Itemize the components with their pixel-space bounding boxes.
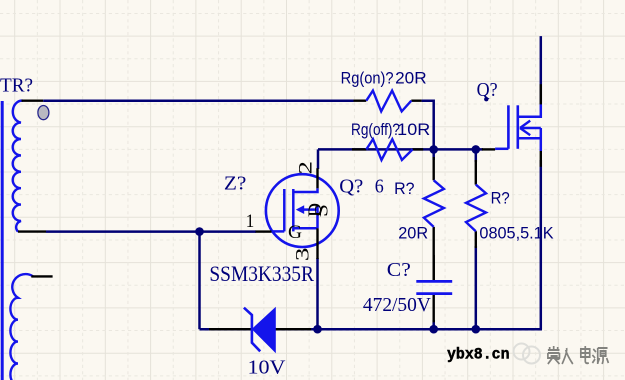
svg-text:0805,5.1K: 0805,5.1K — [479, 224, 554, 243]
resistor R? 20R pins (black) — [433, 157, 435, 180]
resistor R? 5.1K pins (black) — [475, 160, 477, 185]
mosfet Q1 gate lead — [272, 230, 285, 233]
mosfet Q1 channel bar — [292, 189, 295, 231]
zener diode cathode bar with flags — [244, 308, 260, 352]
mosfet Q2 body lead with arrow — [521, 127, 541, 130]
transformer TR? pin (secondary top stub) — [31, 275, 52, 277]
mosfet Q1 (SSM3K335R) circle — [266, 174, 339, 247]
mosfet Q1 gate bar — [283, 189, 286, 231]
wire: Rg(on) right to corner down to mid net — [422, 101, 434, 150]
svg-text:Rg(off)?: Rg(off)? — [351, 120, 400, 139]
svg-text:Q?: Q? — [339, 175, 363, 197]
svg-text:R?: R? — [491, 189, 510, 208]
node: mid net / R5.1K junction — [472, 145, 481, 154]
mosfet Q2 gate lead — [495, 148, 508, 151]
svg-text:2: 2 — [296, 161, 317, 175]
wire: Q1 source down to rail — [316, 258, 319, 329]
wire: drop from mid net to Q1 drain pin — [317, 149, 320, 169]
svg-text:20R: 20R — [395, 69, 427, 88]
mosfet Q1 source lead — [293, 227, 317, 230]
mosfet Q2 gate pin (black) — [482, 148, 495, 150]
svg-text:10V: 10V — [248, 357, 287, 379]
svg-text:6: 6 — [375, 175, 384, 197]
svg-text:Rg(on)?: Rg(on)? — [341, 69, 394, 88]
svg-text:TR?: TR? — [0, 75, 33, 97]
mosfet Q2 source lead — [518, 137, 541, 140]
wire: bottom rail — [200, 328, 542, 331]
svg-text:S: S — [312, 204, 333, 217]
transformer TR? pin (bottom of primary) — [18, 230, 46, 232]
svg-text:10R: 10R — [397, 120, 430, 139]
wire: mid net horizontal y=149.4 — [318, 148, 483, 151]
resistor R? 20R body — [424, 180, 444, 227]
transformer TR? core line — [1, 101, 4, 380]
node: rail / Q1 source junction — [313, 325, 322, 334]
svg-text:G: G — [288, 222, 302, 243]
mosfet Q1 gate pin (black) — [256, 230, 272, 232]
transformer TR? secondary winding — [10, 274, 33, 380]
svg-text:SSM3K335R: SSM3K335R — [209, 261, 314, 286]
transformer TR? primary winding — [13, 101, 24, 232]
wire: from mid net down to R 20R and C — [432, 149, 435, 160]
zener diode pins (black) — [209, 328, 251, 330]
node: rail / C junction — [429, 325, 438, 334]
svg-text:C?: C? — [387, 259, 411, 281]
wire: C bottom to rail — [432, 320, 435, 329]
mosfet Q2 channel bar — [516, 105, 519, 149]
watermark logo circles — [514, 344, 541, 364]
transformer TR? pin (top) — [22, 99, 44, 101]
svg-text:R?: R? — [394, 179, 414, 198]
mosfet Q2 drain pin (black) — [540, 84, 542, 104]
resistor Rg(off) body — [366, 139, 412, 160]
wire: from mid net down to R 5.1K — [475, 149, 478, 162]
svg-text:1: 1 — [246, 211, 255, 232]
wire: drop from gate net to bottom rail — [198, 232, 201, 330]
resistor Rg(off) pins (black) — [352, 148, 366, 150]
node: mid net / R20R junction — [429, 145, 438, 154]
capacitor C? pin bottom (black) — [433, 295, 435, 322]
capacitor C? plates — [416, 280, 452, 283]
zener diode triangle — [252, 308, 275, 352]
svg-text:ybx8.cn: ybx8.cn — [447, 346, 510, 364]
capacitor C? pin top (black) — [433, 255, 435, 280]
svg-text:20R: 20R — [398, 224, 428, 243]
mosfet Q1 body lead with arrow — [302, 208, 318, 211]
svg-text:Q?: Q? — [477, 79, 498, 101]
svg-text:472/50V: 472/50V — [363, 294, 432, 316]
mosfet Q2 drain lead — [518, 104, 541, 116]
wire: right vertical (source of Q2 down to rail) — [541, 160, 542, 329]
mosfet Q2 designator Q? — [484, 97, 488, 101]
mosfet Q1 source pin (black) — [316, 228, 318, 259]
wire: R 5.1K bottom to rail — [475, 246, 478, 329]
transformer polarity dot — [38, 106, 49, 120]
node: gate net / zener drop junction — [195, 227, 204, 236]
mosfet Q1 right vertical (body to source) — [316, 205, 319, 228]
mosfet Q2 right vertical (body to source) — [540, 128, 543, 151]
watermark chinese text 嵌入电源 — [548, 346, 609, 364]
wire: gate net from TR bottom to Q1 gate — [46, 230, 256, 233]
mosfet Q2 (top right) gate bar — [507, 105, 510, 149]
resistor R? 5.1K body — [466, 185, 486, 232]
node: rail / R5.1K junction — [472, 325, 481, 334]
mosfet Q1 drain pin (black) — [316, 168, 318, 188]
wire: right vertical (drain of Q2 up) — [540, 36, 543, 104]
mosfet Q1 drain lead — [293, 188, 317, 192]
resistor Rg(on) pins (black) — [354, 99, 367, 101]
svg-text:Z?: Z? — [224, 173, 247, 195]
mosfet Q2 source pin (black) — [540, 151, 542, 167]
svg-text:3: 3 — [293, 248, 314, 262]
resistor Rg(on) body — [366, 91, 411, 112]
wire: top net from TR to Rg(on) — [43, 99, 353, 102]
